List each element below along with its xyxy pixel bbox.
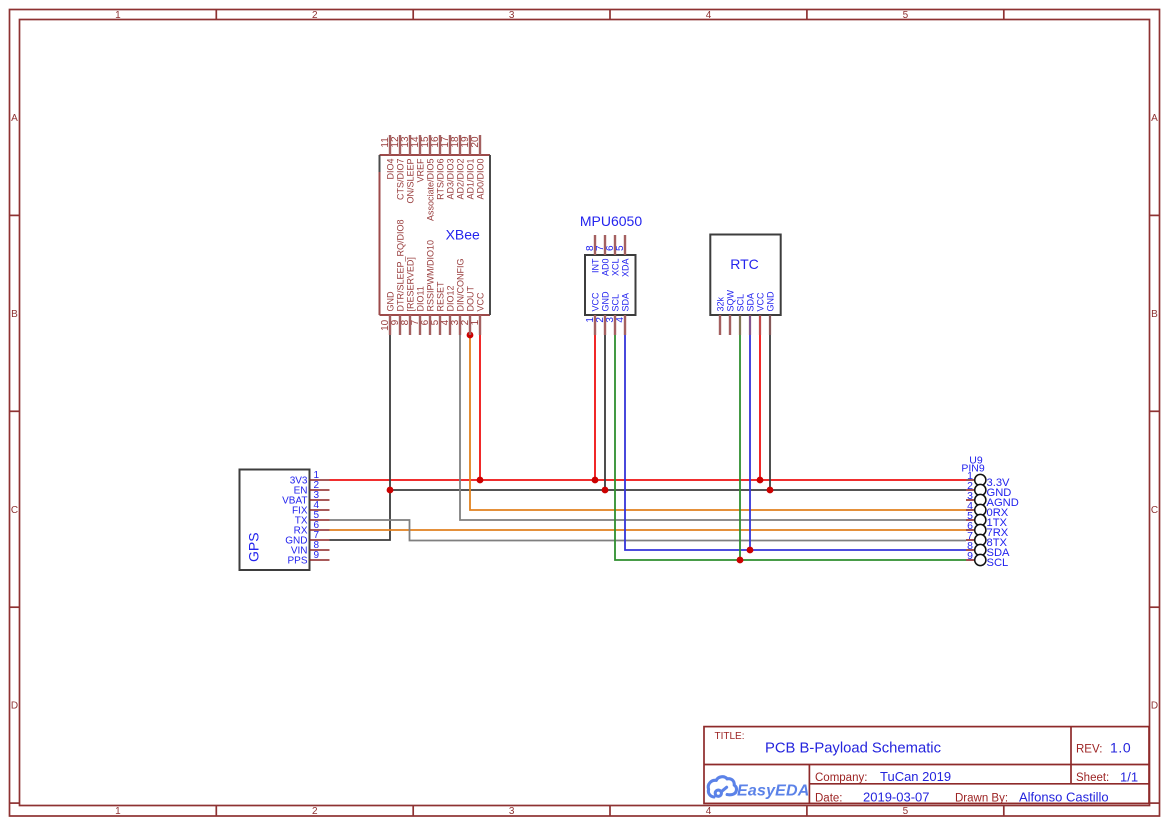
svg-text:5: 5 <box>903 10 909 21</box>
svg-text:AD2/DIO2: AD2/DIO2 <box>456 159 466 200</box>
MPU6050 pin 7 (AD0) <box>595 235 610 276</box>
GPS pin 4 (FIX) <box>292 500 330 516</box>
wire net 0RX XBee.DOUT to U9.4 <box>470 335 966 510</box>
GPS pin 2 (EN) <box>294 480 330 496</box>
svg-text:4: 4 <box>615 317 626 323</box>
svg-text:SCL: SCL <box>987 557 1009 569</box>
svg-text:DIO11: DIO11 <box>416 286 426 311</box>
svg-text:REV:: REV: <box>1076 744 1102 756</box>
svg-text:SCL: SCL <box>611 294 621 312</box>
svg-text:AD0: AD0 <box>601 259 611 277</box>
svg-text:Alfonso Castillo: Alfonso Castillo <box>1019 790 1109 805</box>
svg-text:9: 9 <box>314 550 320 561</box>
RTC pin SDA <box>746 293 756 335</box>
junction at 3.3V bus / MPU.VCC <box>592 477 599 484</box>
svg-text:1: 1 <box>115 10 121 21</box>
MPU6050 pin 6 (XCL) <box>605 235 620 276</box>
U9 pin 2 (GND) <box>966 480 1011 499</box>
svg-text:SCL: SCL <box>736 294 746 312</box>
svg-text:MPU6050: MPU6050 <box>580 213 642 229</box>
wire MPU6050.VCC drop to 3.3V bus <box>594 335 596 480</box>
svg-text:32k: 32k <box>716 296 726 311</box>
svg-text:GND: GND <box>766 291 776 312</box>
svg-text:RSSIPWM/DIO10: RSSIPWM/DIO10 <box>426 240 436 312</box>
junction at XBee.DOUT pin <box>467 332 474 339</box>
XBee pin 14 (VREF) <box>410 135 425 183</box>
wire XBee.VCC drop to 3.3V bus <box>479 335 481 480</box>
svg-text:XCL: XCL <box>611 259 621 277</box>
XBee pin 6 (RSSIPWM/DIO10) <box>420 240 435 335</box>
svg-text:20: 20 <box>470 136 481 148</box>
svg-text:2: 2 <box>312 10 318 21</box>
svg-text:PCB B-Payload Schematic: PCB B-Payload Schematic <box>765 741 942 757</box>
svg-text:VCC: VCC <box>476 292 486 312</box>
title block frame <box>704 727 1149 804</box>
svg-text:DTR/SLEEP_RQ/DIO8: DTR/SLEEP_RQ/DIO8 <box>396 219 406 311</box>
svg-text:AD3/DIO3: AD3/DIO3 <box>446 159 456 200</box>
svg-text:1: 1 <box>470 319 481 325</box>
svg-text:5: 5 <box>903 806 909 817</box>
XBee pin 16 (RTS/DIO6) <box>430 135 445 200</box>
svg-text:AD0/DIO0: AD0/DIO0 <box>476 159 486 200</box>
svg-text:ON/SLEEP: ON/SLEEP <box>406 159 416 204</box>
svg-text:9: 9 <box>967 550 973 562</box>
GPS pin 7 (GND) <box>285 530 329 546</box>
svg-text:DIN/CONFIG: DIN/CONFIG <box>456 259 466 312</box>
XBee pin 13 (ON/SLEEP) <box>400 135 415 204</box>
junction at 3.3V bus / RTC.VCC <box>757 477 764 484</box>
GPS pin 9 (PPS) <box>287 550 329 566</box>
junction at GND bus / MPU.GND <box>602 487 609 494</box>
wire net SDA MPU6050.SDA to U9.8 <box>625 335 966 550</box>
svg-text:2: 2 <box>312 806 318 817</box>
GPS pin 8 (VIN) <box>291 540 330 556</box>
svg-text:3: 3 <box>509 10 515 21</box>
svg-text:Associate/DIO5: Associate/DIO5 <box>426 159 436 222</box>
XBee pin 4 (DIO12) <box>440 285 455 335</box>
MPU6050 pin 3 (SCL) <box>605 294 620 335</box>
wire GPS.GND to XBee.GND riser <box>330 335 391 540</box>
wire net 1TX XBee.DIN to U9.5 <box>460 335 966 520</box>
GPS pin 3 (VBAT) <box>282 490 329 506</box>
svg-text:Date:: Date: <box>815 793 843 805</box>
XBee pin 10 (GND) <box>380 291 395 335</box>
GPS pin 1 (3V3) <box>290 470 330 486</box>
svg-text:GND: GND <box>601 291 611 312</box>
wire MPU6050.GND drop to GND bus <box>604 335 606 490</box>
svg-text:[RESERVED]: [RESERVED] <box>406 257 416 311</box>
junction at SCL bus / RTC.SCL <box>737 557 744 564</box>
svg-text:XDA: XDA <box>621 259 631 278</box>
svg-text:A: A <box>1151 113 1158 124</box>
svg-text:DOUT: DOUT <box>466 286 476 312</box>
junction at SDA bus / RTC.SDA <box>747 547 754 554</box>
svg-text:GND: GND <box>386 291 396 312</box>
wire net SCL MPU6050.SCL to U9.9 <box>615 335 966 560</box>
RTC pin SCL <box>736 294 746 335</box>
svg-text:B: B <box>11 309 18 320</box>
svg-text:PPS: PPS <box>287 556 307 567</box>
MPU6050 pin 2 (GND) <box>595 291 610 335</box>
svg-text:EasyEDA: EasyEDA <box>737 782 810 799</box>
svg-text:INT: INT <box>591 258 601 273</box>
svg-text:CTS/DIO7: CTS/DIO7 <box>396 159 406 201</box>
U9 pin 6 (7RX) <box>966 520 1009 539</box>
svg-text:XBee: XBee <box>446 227 480 243</box>
U9 pin 3 (AGND) <box>966 490 1019 509</box>
wire net 8TX GPS.TX to U9.7 <box>330 520 967 541</box>
svg-text:C: C <box>1151 505 1158 516</box>
XBee pin 1 (VCC) <box>470 292 485 335</box>
svg-text:1.0: 1.0 <box>1110 740 1131 756</box>
GPS pin 6 (RX) <box>294 520 330 536</box>
svg-text:VREF: VREF <box>416 158 426 183</box>
svg-text:GPS: GPS <box>246 532 262 562</box>
XBee pin 9 (DTR/SLEEP_RQ/DIO8) <box>390 219 405 335</box>
svg-text:Company:: Company: <box>815 772 867 784</box>
XBee pin 11 (DIO4) <box>380 135 395 180</box>
svg-text:4: 4 <box>706 806 712 817</box>
svg-text:SDA: SDA <box>621 293 631 312</box>
XBee pin 18 (AD2/DIO2) <box>450 135 465 200</box>
svg-text:PIN9: PIN9 <box>961 463 985 475</box>
svg-text:B: B <box>1151 309 1158 320</box>
svg-text:VCC: VCC <box>756 292 766 312</box>
svg-text:C: C <box>11 505 18 516</box>
svg-text:Drawn By:: Drawn By: <box>955 793 1008 805</box>
U9 pin 9 (SCL) <box>966 550 1008 569</box>
wire RTC.GND drop to GND bus <box>769 315 771 490</box>
svg-text:VCC: VCC <box>591 292 601 312</box>
IC XBee body <box>380 155 491 315</box>
XBee pin 20 (AD0/DIO0) <box>470 135 485 200</box>
wire net 3.3V bus GPS.3V3 to U9.1 <box>330 479 967 481</box>
U9 pin 7 (8TX) <box>966 530 1008 549</box>
EasyEDA logo <box>708 777 736 797</box>
svg-text:2019-03-07: 2019-03-07 <box>863 790 930 805</box>
wire net GND bus to U9.2 <box>390 489 966 491</box>
RTC pin VCC <box>756 292 766 335</box>
XBee pin 2 (DOUT) <box>460 286 475 335</box>
wire RTC.SDA drop to SDA bus <box>749 315 751 550</box>
XBee pin 5 (RESET) <box>430 281 445 335</box>
svg-text:A: A <box>11 113 18 124</box>
connector U9 reference labels <box>961 455 985 475</box>
XBee pin 3 (DIN/CONFIG) <box>450 259 465 336</box>
svg-text:SQW: SQW <box>726 289 736 311</box>
U9 pin 8 (SDA) <box>966 540 1010 559</box>
XBee pin 8 ([RESERVED]) <box>400 257 415 335</box>
U9 pin 4 (0RX) <box>966 500 1009 519</box>
svg-text:RESET: RESET <box>436 281 446 312</box>
RTC pin SQW <box>726 289 736 335</box>
svg-text:1/1: 1/1 <box>1120 770 1138 785</box>
MPU6050 pin 5 (XDA) <box>615 235 630 277</box>
svg-text:TITLE:: TITLE: <box>715 731 745 742</box>
XBee pin 19 (AD1/DIO1) <box>460 135 475 200</box>
XBee pin 7 (DIO11) <box>410 286 425 335</box>
junction at GND bus / RTC.GND <box>767 487 774 494</box>
svg-text:1: 1 <box>115 806 121 817</box>
svg-text:TuCan 2019: TuCan 2019 <box>880 769 951 784</box>
MPU6050 pin 8 (INT) <box>585 235 600 273</box>
IC GPS body <box>240 470 310 571</box>
svg-text:D: D <box>1151 701 1158 712</box>
wire net 7RX GPS.RX to U9.6 <box>330 529 967 531</box>
svg-text:5: 5 <box>615 245 626 251</box>
wire RTC.VCC drop to 3.3V bus <box>759 315 761 480</box>
RTC pin 32k <box>716 296 726 335</box>
junction at 3.3V bus / XBee.VCC <box>477 477 484 484</box>
svg-text:DIO4: DIO4 <box>386 159 396 180</box>
svg-text:DIO12: DIO12 <box>446 285 456 311</box>
svg-text:Sheet:: Sheet: <box>1076 772 1109 784</box>
XBee pin 17 (AD3/DIO3) <box>440 135 455 200</box>
GPS pin 5 (TX) <box>295 510 330 526</box>
svg-text:4: 4 <box>706 10 712 21</box>
U9 pin 1 (3.3V) <box>966 470 1010 489</box>
MPU6050 pin 1 (VCC) <box>585 292 600 335</box>
junction at GND bus / XBee.GND <box>387 487 394 494</box>
U9 pin 5 (1TX) <box>966 510 1008 529</box>
RTC pin GND <box>766 291 776 335</box>
IC RTC body <box>710 235 780 316</box>
svg-text:RTS/DIO6: RTS/DIO6 <box>436 159 446 200</box>
XBee pin 15 (Associate/DIO5) <box>420 135 435 221</box>
IC MPU6050 body <box>585 255 636 315</box>
svg-text:3: 3 <box>509 806 515 817</box>
svg-text:SDA: SDA <box>746 293 756 312</box>
svg-text:RTC: RTC <box>730 256 759 272</box>
svg-text:AD1/DIO1: AD1/DIO1 <box>466 159 476 200</box>
wire RTC.SCL drop to SCL bus <box>739 315 741 560</box>
XBee pin 12 (CTS/DIO7) <box>390 135 405 200</box>
svg-text:D: D <box>11 701 18 712</box>
MPU6050 pin 4 (SDA) <box>615 293 630 335</box>
